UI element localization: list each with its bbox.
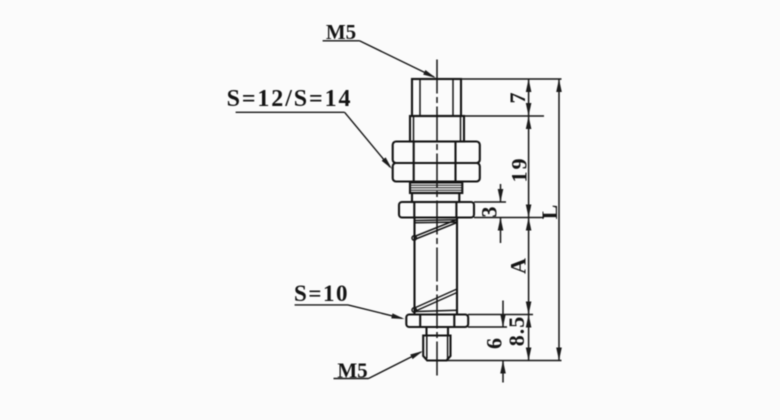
leader M5 top: [323, 40, 360, 42]
svg-text:19: 19: [507, 157, 532, 183]
centerline: [436, 60, 438, 377]
shaft: [413, 218, 415, 315]
svg-text:3: 3: [477, 206, 502, 218]
arrows L line: [556, 79, 562, 92]
nut facet lines: [413, 142, 415, 182]
svg-text:M5: M5: [337, 359, 367, 383]
extension line y=116: [464, 115, 544, 117]
bottom stud M5 body: [423, 336, 450, 361]
hex nut lower S=14: [393, 163, 480, 182]
hex nut upper S=12: [393, 142, 480, 164]
svg-text:6: 6: [482, 337, 507, 349]
svg-text:S=12/S=14: S=12/S=14: [227, 86, 353, 112]
locknut (3 thick): [399, 202, 474, 218]
svg-text:M5: M5: [326, 20, 356, 44]
bottom hex S=10: [406, 315, 468, 328]
leader S=12/S=14: [236, 111, 345, 113]
svg-text:S=10: S=10: [294, 281, 349, 306]
extension line top (y=79): [412, 78, 562, 80]
arrows 3: [498, 189, 504, 202]
top stud M5: [412, 79, 461, 116]
dim line for 3 lower: [500, 218, 502, 244]
dim line for 6 lower: [502, 361, 504, 383]
extension line y=202 locknut top: [474, 201, 506, 203]
mid block: [410, 116, 464, 142]
spring coil bottom: [416, 310, 457, 311]
leader M5 bottom: [334, 378, 369, 380]
dim line for 3 upper: [500, 184, 502, 202]
bottom stud M5 neck: [425, 327, 427, 336]
arrows 6: [500, 314, 506, 327]
dim line for 6 upper: [502, 301, 504, 328]
dimension line L x=559: [558, 79, 560, 361]
svg-text:7: 7: [505, 92, 530, 104]
svg-text:A: A: [506, 257, 531, 274]
extension line y=217.5 locknut bottom: [474, 217, 544, 219]
washer stack: [410, 183, 462, 194]
dimension chain line x=528.6: [528, 79, 530, 361]
extension line y=314.5 hex top: [468, 314, 533, 316]
spring coil top: [415, 219, 458, 222]
leader S=10: [295, 304, 348, 306]
svg-text:L: L: [537, 204, 562, 220]
extension line bottom (y=360.5): [447, 360, 562, 362]
svg-text:8.5: 8.5: [504, 316, 529, 347]
arrows chain x=528.6: [498, 79, 562, 374]
extension line y=327 hex bottom: [468, 326, 507, 328]
ring under washers: [412, 193, 459, 202]
